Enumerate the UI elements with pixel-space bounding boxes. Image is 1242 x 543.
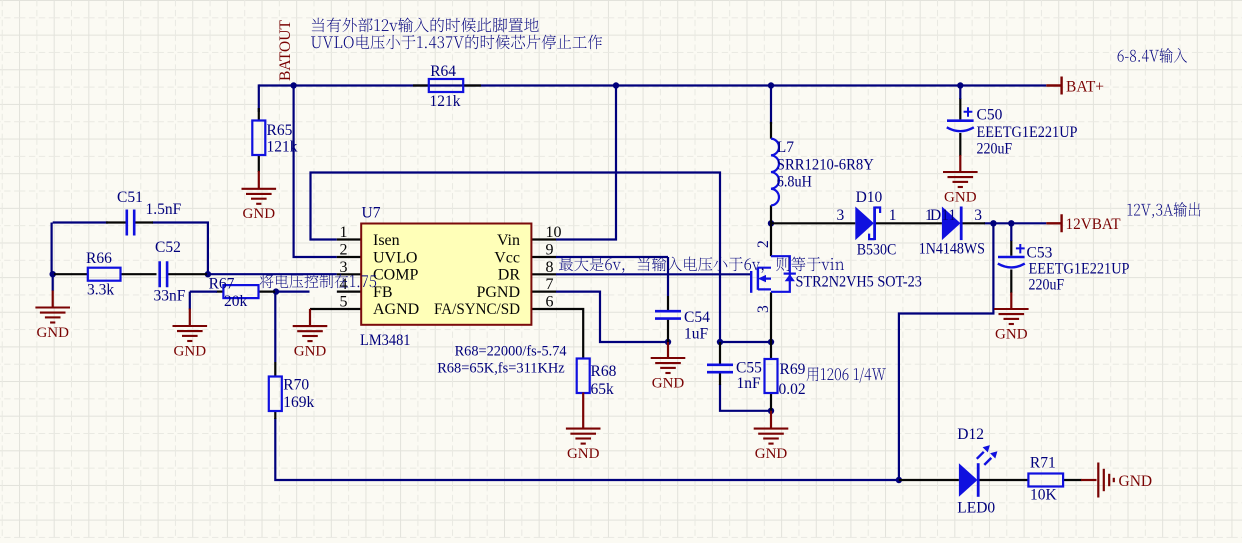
svg-text:1nF: 1nF: [737, 375, 762, 392]
svg-text:3.3k: 3.3k: [87, 282, 114, 299]
svg-text:8: 8: [546, 259, 554, 276]
svg-text:10K: 10K: [1030, 487, 1058, 504]
svg-text:10: 10: [546, 224, 562, 241]
note: control voltage at 1.75: [310, 288, 337, 296]
wire COMP net: pin3 to C51/C52 junction: [208, 273, 337, 275]
svg-text:BAT+: BAT+: [1066, 78, 1104, 95]
junction dot C55 top / Isen: [717, 339, 723, 345]
wire Vin pin10 to rail: [556, 86, 616, 241]
junction dot C53 tap: [1008, 220, 1014, 226]
wire C55 bottom rail to R69 bottom: [720, 384, 771, 411]
capacitor C54: [655, 311, 681, 318]
svg-text:U7: U7: [362, 205, 381, 222]
svg-text:GND: GND: [755, 446, 788, 462]
svg-text:B530C: B530C: [857, 242, 897, 259]
resistor R65: [252, 121, 265, 156]
wire L7 top from rail: [770, 86, 772, 125]
svg-text:Vin: Vin: [497, 232, 520, 249]
wire Vcc pin9 to C54: [556, 257, 668, 296]
capacitor C51: [127, 210, 134, 236]
capacitor C55: [707, 365, 733, 372]
svg-text:FA/SYNC/SD: FA/SYNC/SD: [434, 301, 520, 318]
svg-text:GND: GND: [36, 325, 69, 341]
svg-text:3: 3: [340, 259, 348, 276]
svg-text:L7: L7: [777, 139, 794, 156]
svg-text:3: 3: [974, 207, 982, 224]
svg-text:5: 5: [340, 294, 348, 311]
svg-text:LED0: LED0: [957, 500, 995, 517]
ground COMP network left: [52, 291, 54, 308]
svg-text:GND: GND: [567, 446, 600, 462]
svg-text:20k: 20k: [224, 293, 248, 310]
note: UVLO below 1.437V stops the chip: [311, 35, 602, 50]
wire diode output row: [984, 222, 1046, 224]
svg-text:R67: R67: [209, 275, 235, 292]
junction dot L7/D10/Q drain: [768, 220, 774, 226]
resistor R71: [1028, 474, 1063, 487]
capacitor C52: [160, 261, 167, 287]
svg-text:EEETG1E221UP: EEETG1E221UP: [1029, 261, 1130, 278]
wire FB divider vertical to R70: [274, 292, 276, 362]
wire R67 left lead to GND: [216, 291, 223, 293]
junction dot Q source / R69 top: [768, 339, 774, 345]
ground under R67: [189, 309, 191, 327]
svg-text:R70: R70: [283, 377, 309, 394]
svg-text:COMP: COMP: [373, 267, 418, 284]
svg-text:UVLO: UVLO: [373, 249, 417, 266]
svg-text:1.5nF: 1.5nF: [146, 201, 182, 218]
svg-text:121k: 121k: [430, 93, 461, 110]
wire C51 plate leads: [106, 221, 153, 223]
svg-text:PGND: PGND: [476, 284, 520, 301]
svg-text:C51: C51: [117, 189, 143, 206]
svg-text:GND: GND: [995, 326, 1028, 342]
svg-text:9: 9: [546, 242, 554, 259]
svg-text:R71: R71: [1030, 455, 1056, 472]
svg-text:3: 3: [837, 207, 845, 224]
svg-text:220uF: 220uF: [977, 141, 1013, 158]
svg-text:7: 7: [546, 276, 554, 293]
wire C55 row to MOSFET source / R69 top: [720, 341, 771, 343]
svg-text:GND: GND: [294, 344, 327, 360]
svg-text:GND: GND: [1119, 473, 1153, 490]
junction dot C50 tap: [957, 82, 963, 88]
wire R67 right lead: [259, 291, 276, 293]
wire R64 leads: [413, 84, 481, 86]
wire UVLO net: rail down to pin 2: [294, 86, 337, 258]
port BAT+: [1046, 77, 1061, 95]
wire R65 top from rail: [258, 84, 260, 112]
note: 12V 3A output: [1127, 202, 1200, 218]
diode D11: [942, 207, 961, 241]
ground under R65: [258, 171, 260, 189]
svg-text:GND: GND: [174, 343, 207, 359]
wire PGND pin7 to C54 bottom junction: [556, 292, 668, 342]
junction dot 12VBAT sense: [990, 220, 996, 226]
svg-text:R64: R64: [430, 63, 456, 80]
svg-text:SRR1210-6R8Y: SRR1210-6R8Y: [777, 156, 874, 173]
wire U7 pin6 to R68: [531, 309, 583, 359]
junction dot FB/R67/R70: [273, 288, 279, 294]
svg-text:12VBAT: 12VBAT: [1066, 216, 1122, 233]
wire LED row: [899, 479, 1082, 481]
wire output sense: LED junction up and over to 12VBAT node: [899, 223, 994, 481]
wire C54 leads: [667, 296, 669, 342]
svg-text:BATOUT: BATOUT: [277, 20, 294, 81]
svg-text:1uF: 1uF: [684, 326, 709, 343]
svg-text:STR2N2VH5 SOT-23: STR2N2VH5 SOT-23: [796, 274, 923, 291]
ground under C50: [959, 155, 961, 172]
inductor L7: [771, 139, 779, 206]
wire Q source pin 3: [770, 292, 772, 359]
svg-text:D12: D12: [957, 426, 984, 443]
port 12VBAT: [1046, 214, 1061, 232]
svg-text:33nF: 33nF: [154, 288, 186, 305]
wire U7 pin5 AGND stub to ground: [310, 308, 361, 310]
wire R65 leads: [258, 108, 260, 172]
resistor R70: [269, 377, 282, 412]
wire C52 right lead to junction: [168, 273, 207, 275]
svg-text:2: 2: [340, 242, 348, 259]
svg-text:C55: C55: [736, 360, 762, 377]
svg-text:GND: GND: [243, 206, 276, 222]
ground AGND pin5: [309, 309, 311, 326]
capacitor C50 (polarized): [947, 119, 974, 122]
wire C50 bottom lead: [959, 133, 961, 156]
svg-text:C50: C50: [977, 107, 1003, 124]
svg-text:LM3481: LM3481: [360, 332, 411, 349]
svg-text:C54: C54: [684, 309, 710, 326]
svg-text:R68=22000/fs-5.74: R68=22000/fs-5.74: [455, 344, 567, 360]
junction dot C52/C51/COMP: [205, 271, 211, 277]
svg-text:FB: FB: [373, 284, 393, 301]
resistor R69: [765, 359, 778, 393]
svg-text:R68: R68: [591, 363, 617, 380]
wire R70 bottom to output rail: [275, 418, 899, 480]
wire R70 leads: [274, 362, 276, 419]
ground port right of R71: [1081, 479, 1097, 481]
note: external 12v input grounds this pin: [312, 17, 539, 32]
wire Isen net: pin1 up over to C55 column: [311, 173, 721, 343]
resistor R67: [223, 285, 258, 298]
resistor R68: [577, 359, 590, 394]
svg-text:AGND: AGND: [373, 301, 419, 318]
svg-text:6: 6: [546, 294, 554, 311]
junction dot BATOUT/UVLO node: [290, 82, 296, 88]
note: 6-8.4V input: [1118, 48, 1187, 63]
diode D10 (schottky): [855, 207, 874, 241]
wire C55 leads: [719, 342, 721, 385]
wire R69 bottom lead: [770, 393, 772, 411]
junction dot L7 tap: [768, 82, 774, 88]
ground under C54: [667, 342, 669, 358]
svg-text:R68=65K,fs=311KHz: R68=65K,fs=311KHz: [437, 360, 565, 376]
wire L7 leads: [770, 122, 772, 223]
svg-text:220uF: 220uF: [1029, 277, 1065, 294]
junction dot C54/PGND/GND: [665, 339, 671, 345]
svg-text:D11: D11: [930, 207, 956, 224]
wire FB net: pin4 to R67/R70 junction: [276, 291, 337, 293]
note: use 1206 1/4W: [807, 367, 886, 383]
junction dot COMP network left: [50, 271, 56, 277]
LED D12: [959, 463, 978, 497]
wire C53 top lead: [1010, 240, 1012, 256]
resistor R66: [88, 268, 121, 281]
ground under R69/C55: [770, 411, 772, 429]
svg-text:1: 1: [340, 224, 348, 241]
wire Q drain pin 2: [770, 223, 772, 256]
svg-text:1: 1: [889, 207, 897, 224]
svg-text:DR: DR: [498, 267, 521, 284]
svg-text:EEETG1E221UP: EEETG1E221UP: [977, 124, 1078, 141]
svg-text:6.8uH: 6.8uH: [777, 174, 812, 191]
svg-text:GND: GND: [944, 189, 977, 205]
junction dot R69/C55 bottom: [768, 408, 774, 414]
svg-text:3: 3: [755, 305, 772, 313]
wire top BAT+ rail: [259, 84, 1047, 86]
svg-text:4: 4: [340, 276, 348, 293]
svg-text:65k: 65k: [591, 381, 615, 398]
svg-text:1N4148WS: 1N4148WS: [919, 241, 985, 258]
junction dot Vin riser: [613, 82, 619, 88]
svg-text:Vcc: Vcc: [494, 249, 520, 266]
wire C51 left branch and COMP junction vertical: [52, 221, 209, 291]
ground under C53: [1010, 292, 1012, 309]
resistor R64: [429, 79, 463, 92]
svg-text:GND: GND: [652, 375, 685, 391]
ground under R68: [582, 393, 584, 429]
svg-text:0.02: 0.02: [779, 381, 806, 398]
wire U7 left pin stubs 1-4: [337, 240, 361, 292]
svg-text:Isen: Isen: [373, 232, 400, 249]
svg-text:2: 2: [755, 240, 772, 248]
capacitor C53 (polarized): [998, 256, 1025, 259]
wire diode row D10-D11: [771, 222, 985, 224]
svg-text:D10: D10: [856, 189, 883, 206]
svg-text:R69: R69: [780, 361, 806, 378]
wire DR pin8 to Q gate: [556, 273, 750, 275]
svg-text:C52: C52: [155, 239, 181, 256]
op-amp U7 LM3481 controller: [361, 224, 531, 325]
svg-text:169k: 169k: [283, 394, 314, 411]
svg-text:R66: R66: [86, 250, 112, 267]
junction dot LED branch: [896, 477, 902, 483]
transistor Q1 MOSFET STR2N2VH5: [771, 256, 790, 292]
wire R66 row leads: [54, 273, 157, 275]
svg-text:R65: R65: [267, 122, 293, 139]
svg-text:C53: C53: [1027, 245, 1053, 262]
note: max 6v, when input below 6v equals vin: [559, 256, 844, 272]
wire C53 bottom lead: [1010, 270, 1012, 294]
svg-text:121k: 121k: [267, 139, 298, 156]
wire U7 right pin stubs 10-7: [531, 240, 556, 292]
wire C50 top lead: [959, 98, 961, 119]
